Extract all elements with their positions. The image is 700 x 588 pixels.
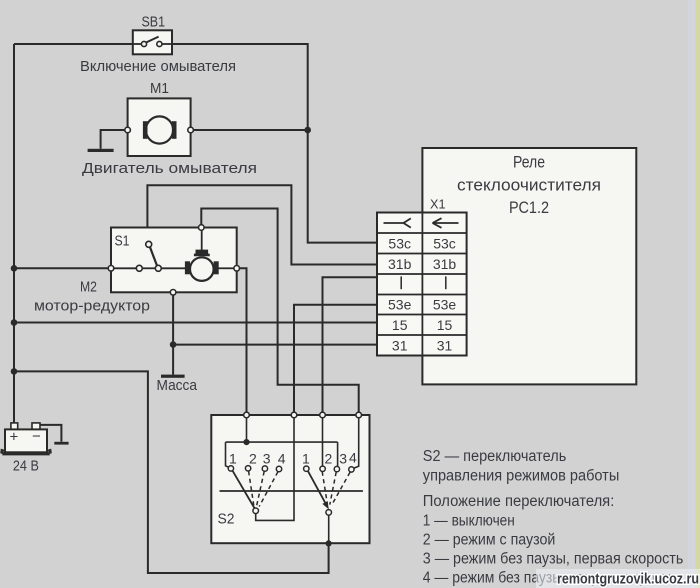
wire: net 15 from rail to relay bbox=[14, 322, 377, 324]
svg-text:мотор-редуктор: мотор-редуктор bbox=[34, 298, 150, 315]
wire: terminal 3 drop to right contact 2 bbox=[322, 418, 324, 466]
wire: net 53e from S2 terminal 2 to relay bbox=[294, 305, 377, 413]
svg-text:2 — режим с паузой: 2 — режим с паузой bbox=[423, 531, 556, 548]
svg-text:31: 31 bbox=[392, 337, 408, 353]
S2 internal wires bbox=[220, 418, 363, 543]
pin symbol: socket bbox=[384, 218, 411, 227]
svg-text:М2: М2 bbox=[80, 280, 97, 296]
left bank levers bbox=[233, 471, 255, 509]
wire: M2 bottom terminal down to chassis ground bbox=[172, 295, 174, 375]
svg-text:53e: 53e bbox=[433, 297, 457, 313]
junction: S2 terminal 1 / bus bbox=[243, 439, 249, 445]
wire: bus left drop to left contact 1 bbox=[226, 442, 229, 467]
right edge olive stripe bbox=[695, 0, 700, 588]
svg-text:2: 2 bbox=[249, 451, 257, 467]
svg-text:3: 3 bbox=[339, 451, 347, 467]
wire: SB1 to right rail, down to relay 53c row bbox=[171, 44, 377, 243]
wire: bus connecting contacts 1L and 3R bbox=[226, 441, 338, 443]
battery GB 24V bbox=[0, 423, 52, 456]
svg-text:РС1.2: РС1.2 bbox=[509, 199, 549, 217]
junction: S2 common at box edge bbox=[326, 540, 332, 546]
svg-text:Двигатель омывателя: Двигатель омывателя bbox=[82, 160, 257, 177]
junction: net 31 / ground drop bbox=[170, 341, 177, 348]
svg-text:31: 31 bbox=[437, 337, 453, 353]
S2 top terminals bbox=[244, 412, 250, 418]
ground (M1) bbox=[88, 149, 114, 152]
wire: rail to M2 left terminal bbox=[14, 267, 108, 269]
right edge blue-gray band bbox=[688, 0, 696, 588]
wire: bus right drop to right contact 3 bbox=[337, 442, 339, 466]
junction: rail / M2 left bbox=[11, 265, 18, 272]
svg-text:Масса: Масса bbox=[157, 378, 198, 394]
right bank contact circles 1-4 bbox=[304, 466, 309, 471]
junction: rail / S2 common loop bbox=[11, 368, 18, 375]
legend text: S2 description bbox=[423, 448, 684, 586]
switch SB1 bbox=[133, 30, 172, 54]
svg-text:31b: 31b bbox=[388, 256, 412, 272]
svg-text:S2 — переключатель: S2 — переключатель bbox=[423, 448, 567, 465]
wire: M1 left terminal to ground bbox=[101, 130, 125, 149]
svg-text:24 В: 24 В bbox=[13, 459, 39, 475]
wire: net 31 to relay bbox=[173, 344, 377, 346]
svg-text:1 — выключен: 1 — выключен bbox=[423, 512, 515, 529]
svg-text:S2: S2 bbox=[218, 511, 235, 528]
ground (Масса) bbox=[161, 375, 185, 378]
wire: terminal 2 drop to left common bbox=[256, 418, 294, 521]
wire: right common down to box edge bbox=[328, 515, 330, 543]
svg-text:15: 15 bbox=[392, 317, 408, 333]
watermark bbox=[536, 569, 700, 588]
wire: left +24V rail down to battery bbox=[13, 44, 15, 423]
wire: M1 right terminal to rail bbox=[193, 129, 307, 131]
svg-text:−: − bbox=[32, 428, 41, 445]
mechanical coupling line bbox=[220, 490, 363, 492]
switch S2 (mode selector) box bbox=[211, 412, 369, 543]
svg-text:Положение переключателя:: Положение переключателя: bbox=[423, 493, 615, 510]
wire: terminal 4 drop to right contact 4 bbox=[354, 418, 359, 468]
svg-text:3: 3 bbox=[263, 451, 271, 467]
ground (battery) bbox=[54, 442, 68, 445]
switch S1 (park switch) bbox=[114, 247, 234, 268]
connector X1 table bbox=[377, 213, 467, 356]
svg-text:53c: 53c bbox=[388, 235, 411, 251]
svg-text:4: 4 bbox=[278, 451, 286, 467]
terminals of M2 bbox=[108, 266, 114, 272]
left common contact bbox=[253, 508, 259, 514]
svg-text:+: + bbox=[10, 429, 19, 446]
svg-text:Реле: Реле bbox=[513, 154, 545, 172]
svg-text:1: 1 bbox=[229, 451, 237, 467]
svg-text:стеклоочистителя: стеклоочистителя bbox=[457, 177, 601, 195]
svg-text:remontgruzovik.ucoz.ru: remontgruzovik.ucoz.ru bbox=[557, 571, 699, 588]
svg-text:М1: М1 bbox=[150, 81, 169, 97]
wire: terminal 1 drop to bus bbox=[246, 418, 248, 442]
svg-text:S1: S1 bbox=[115, 233, 130, 250]
svg-text:1: 1 bbox=[302, 451, 310, 467]
svg-text:Включение омывателя: Включение омывателя bbox=[80, 58, 236, 75]
svg-text:53e: 53e bbox=[388, 297, 412, 313]
wire: net from M2 motor top terminal to S2 pin 4 column bbox=[201, 209, 358, 413]
wire: battery minus to ground bbox=[40, 425, 61, 442]
wire: unnamed pin row net from S2 terminal 3 to relay bbox=[323, 277, 378, 412]
svg-text:53c: 53c bbox=[433, 235, 456, 251]
motor M1 (washer motor) bbox=[125, 98, 194, 156]
svg-text:управления режимов работы: управления режимов работы bbox=[423, 467, 620, 484]
svg-text:31b: 31b bbox=[433, 256, 457, 272]
svg-text:2: 2 bbox=[325, 451, 333, 467]
svg-text:4: 4 bbox=[349, 450, 357, 466]
wire: net 31b from S1 top contact to relay bbox=[147, 185, 377, 264]
wire: rail to S2 common output (bottom loop) bbox=[14, 371, 329, 573]
left bank contact circles 1-4 bbox=[228, 466, 233, 471]
svg-text:SB1: SB1 bbox=[142, 15, 166, 31]
wire: M2 right terminal to S2 terminal 1 bbox=[240, 268, 247, 412]
right bank lever with arrow bbox=[308, 471, 327, 506]
right common contact bbox=[326, 510, 332, 516]
gear motor unit M2 box bbox=[108, 225, 239, 295]
motor (M2 wiper motor) bbox=[190, 257, 214, 281]
svg-text:X1: X1 bbox=[430, 197, 446, 212]
pin symbol: arrow (plug) bbox=[433, 218, 459, 228]
relay box (Реле стеклоочистителя РС1.2) bbox=[422, 148, 636, 384]
svg-text:15: 15 bbox=[437, 317, 453, 333]
junction: rail / M1 output bbox=[304, 127, 311, 134]
junction: rail / net 15 bbox=[11, 319, 18, 326]
unnamed pin bars bbox=[400, 276, 402, 289]
svg-text:3 — режим без паузы, первая ск: 3 — режим без паузы, первая скорость bbox=[423, 551, 684, 568]
wire: top +24V bus from left rail to SB1 bbox=[14, 43, 133, 45]
